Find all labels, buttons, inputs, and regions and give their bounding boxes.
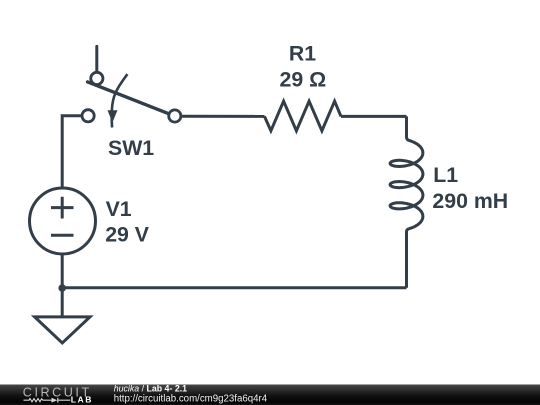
node: junction dot at ground net — [58, 284, 66, 292]
svg-text:http://circuitlab.com/cm9g23fa: http://circuitlab.com/cm9g23fa6q4r4 — [114, 394, 268, 405]
switch SW1 motion arc — [112, 74, 128, 127]
svg-text:29 V: 29 V — [105, 223, 150, 247]
wire: bottom return (ground node to inductor bottom) — [62, 286, 406, 289]
svg-text:290 mH: 290 mH — [432, 189, 508, 213]
switch SW1 arrowhead — [108, 110, 118, 122]
wire: right contact to resistor — [182, 115, 264, 118]
voltage source V1 circle — [30, 188, 96, 254]
CircuitLab logo: diode symbol — [52, 398, 58, 403]
switch SW1 blade — [88, 82, 168, 114]
switch SW1 right throw terminal circle — [169, 110, 181, 122]
wire: left contact to V1 top — [62, 116, 81, 188]
CircuitLab logo: schematic squiggle lead — [24, 399, 71, 402]
svg-text:V1: V1 — [106, 197, 132, 221]
svg-text:LAB: LAB — [71, 395, 93, 405]
svg-text:hucika / Lab 4- 2.1: hucika / Lab 4- 2.1 — [114, 383, 187, 393]
svg-text:SW1: SW1 — [108, 136, 154, 160]
wire: switch common stub (top) — [95, 46, 98, 71]
ground symbol — [35, 317, 90, 343]
svg-text:L1: L1 — [433, 163, 458, 187]
footer bar — [0, 385, 540, 405]
svg-text:R1: R1 — [289, 42, 316, 66]
wire: V1 bottom to ground node — [61, 254, 64, 288]
wire: resistor to top-right corner — [341, 115, 407, 118]
resistor R1 — [265, 101, 342, 131]
wire: ground stub — [61, 288, 64, 316]
switch SW1 left throw terminal circle — [82, 110, 94, 122]
V1 minus sign — [51, 234, 74, 237]
V1 plus sign — [51, 197, 74, 219]
svg-text:29 Ω: 29 Ω — [280, 68, 327, 92]
switch SW1 common terminal circle — [91, 72, 103, 84]
inductor L1 (coil with top and bottom leads) — [390, 116, 423, 287]
